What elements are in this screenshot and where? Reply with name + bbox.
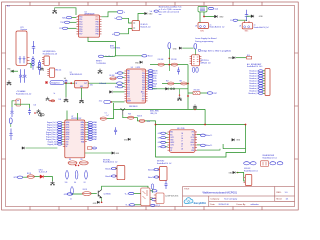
svg-text:B-D: B-D (7, 6, 11, 8)
ground G10 (50, 181, 54, 185)
U7 bottom gnd wire (85, 152, 112, 154)
wire antenna to R19 (123, 115, 128, 118)
svg-text:(DIP6)2x3_2x3: (DIP6)2x3_2x3 (200, 62, 210, 64)
svg-text:GND: GND (150, 198, 153, 200)
U1 body (75, 80, 89, 88)
svg-text:PC3: PC3 (127, 91, 130, 93)
svg-text:IN1: IN1 (170, 134, 172, 136)
svg-text:PB1: PB1 (127, 73, 130, 75)
svg-text:PB0: PB0 (127, 71, 130, 73)
capacitor C2 polarized (19, 69, 22, 82)
wire to R16 (236, 57, 247, 59)
svg-text:EN2: EN2 (192, 150, 195, 152)
svg-text:1.5: 1.5 (230, 20, 232, 22)
diode D5 (110, 91, 113, 94)
vertical net ellipse P3 (85, 170, 88, 179)
ground G2 (7, 80, 12, 85)
svg-text:PB1: PB1 (96, 24, 99, 26)
svg-text:Bridge SDO to GND in progMode: Bridge SDO to GND in progMode (201, 50, 231, 53)
H2 pins (47, 70, 49, 76)
capacitor C3 polarized (23, 69, 26, 82)
broadcast header body (265, 69, 270, 96)
svg-text:PC0: PC0 (127, 85, 130, 87)
wire PO to U2 (68, 27, 77, 29)
svg-text:REV:: REV: (277, 192, 282, 194)
svg-text:1.0: 1.0 (285, 192, 289, 194)
vertical net flag V2 (194, 44, 197, 50)
svg-text:PD7: PD7 (79, 34, 82, 36)
svg-text:ANT2_FEED: ANT2_FEED (150, 110, 160, 113)
svg-text:RELAYMOVER: RELAYMOVER (263, 154, 275, 157)
svg-text:Motor1.B: Motor1.B (105, 175, 111, 178)
capacitor C4 (65, 80, 68, 84)
svg-text:GND: GND (191, 140, 194, 142)
svg-text:..._1x?: ..._1x? (105, 115, 109, 117)
wire U2 bottom to ANT1 (88, 37, 116, 56)
svg-text:R4 1K: R4 1K (83, 189, 87, 191)
svg-text:GRO-NC: GRO-NC (244, 168, 251, 170)
antenna ANT2 (121, 108, 125, 115)
U7 body (65, 120, 85, 158)
svg-text:BROSE-IN: BROSE-IN (129, 106, 138, 108)
svg-text:Keypad_Col_0: Keypad_Col_0 (47, 122, 58, 124)
svg-text:Date:: Date: (210, 203, 215, 206)
ground G7 below loop (179, 89, 181, 95)
svg-text:PD5: PD5 (79, 29, 82, 31)
svg-text:During programming: During programming (195, 41, 213, 43)
svg-text:HFC(W)RF24L01+: HFC(W)RF24L01+ (43, 51, 56, 53)
svg-text:off: off (239, 26, 241, 28)
wire C4 down to gnd (65, 83, 67, 97)
svg-text:NC: NC (66, 146, 68, 148)
U3 right pins (146, 71, 148, 101)
svg-text:RESET: RESET (96, 61, 102, 63)
ground arrow left (11, 70, 14, 73)
svg-text:HeaderMale2.54_1x2: HeaderMale2.54_1x2 (244, 171, 258, 173)
svg-text:PC1: PC1 (127, 87, 130, 89)
svg-text:PB5: PB5 (127, 82, 130, 84)
svg-text:on: on (210, 24, 212, 26)
svg-text:R20 1K: R20 1K (137, 116, 142, 118)
svg-text:Header-Male2.54_1x2: Header-Male2.54_1x2 (210, 26, 225, 29)
svg-text:IN: IN (76, 83, 78, 85)
vertical net ellipse P1 (66, 170, 69, 179)
wire TSO to U2 (70, 21, 77, 23)
svg-text:GND: GND (236, 140, 241, 142)
svg-text:U9 HC-05: U9 HC-05 (140, 24, 147, 26)
svg-text:Header-Male2.54_1x2: Header-Male2.54_1x2 (254, 26, 269, 29)
svg-text:PC4: PC4 (127, 94, 130, 96)
wire C13 to H5 (14, 104, 29, 108)
svg-text:PD1: PD1 (79, 19, 82, 21)
wire BT1 to caps (30, 64, 32, 69)
inductor L2 (38, 60, 40, 75)
svg-text:In: In (115, 18, 117, 20)
svg-text:PC2: PC2 (127, 89, 130, 91)
svg-text:GND: GND (228, 58, 233, 60)
svg-text:PD7: PD7 (142, 89, 145, 91)
svg-text:3.3v: 3.3v (90, 84, 93, 86)
svg-text:OUT1: OUT1 (170, 137, 174, 139)
diode D9 gnd (145, 12, 147, 14)
svg-text:SWC: SWC (245, 31, 250, 33)
switch SW1 body (198, 23, 209, 29)
svg-text:BridgeTest: BridgeTest (51, 82, 60, 85)
svg-text:GND: GND (149, 13, 154, 15)
svg-text:Motor2.B: Motor2.B (148, 176, 154, 179)
svg-text:on: on (254, 25, 256, 27)
vertical net flag V4 (151, 184, 154, 189)
battery cells (19, 56, 26, 63)
wire U2 to net 5v (102, 12, 118, 17)
svg-text:h: h (124, 12, 125, 14)
svg-text:EN1: EN1 (170, 132, 173, 134)
svg-text:NC_R: NC_R (156, 205, 161, 207)
capacitor C9 (11, 107, 14, 117)
svg-text:Company:: Company: (210, 199, 220, 201)
relay right net flags (270, 162, 276, 165)
wire BadClock to OnReset (104, 55, 142, 58)
U4 right wires (197, 134, 200, 136)
svg-text:3Y: 3Y (181, 146, 183, 148)
diode D3 to GND (251, 15, 254, 18)
svg-text:R19: R19 (128, 113, 131, 115)
svg-text:RST: RST (214, 93, 217, 95)
svg-text:XT1: XT1 (142, 94, 145, 96)
svg-text:TL-CRKF49G: TL-CRKF49G (96, 63, 107, 65)
wire from G1 to U2 top (55, 8, 76, 15)
U4 right pins (195, 132, 197, 150)
svg-text:GND: GND (116, 153, 120, 155)
svg-text:BFly 1x4: BFly 1x4 (55, 70, 61, 72)
capacitor C10 polarized (10, 129, 13, 141)
svg-text:load: load (215, 8, 218, 10)
svg-text:OUT2: OUT2 (170, 145, 174, 147)
U3 right net flags (147, 70, 150, 72)
svg-text:GP5: GP5 (13, 177, 17, 179)
wire bus to R15 (188, 92, 193, 94)
svg-text:PD3: PD3 (142, 80, 145, 82)
net flag OnReset (142, 55, 147, 57)
svg-text:GP6: GP6 (64, 194, 68, 196)
ISP header body (192, 55, 200, 66)
wire U9 top to diode (138, 14, 144, 21)
wire U1 out to InBound (88, 82, 117, 84)
wire gnd arrow right (182, 47, 193, 49)
ground G4 (79, 98, 84, 103)
U2 left pins (77, 17, 79, 34)
header H2 body (49, 68, 54, 77)
header H4 body (245, 175, 252, 186)
svg-text:PO: PO (59, 28, 62, 30)
net flag load (208, 7, 213, 9)
svg-text:PD3: PD3 (79, 24, 82, 26)
U4 left pins (168, 132, 170, 150)
svg-text:Keypad_Row_3: Keypad_Row_3 (46, 139, 57, 141)
svg-text:PD0: PD0 (79, 17, 82, 19)
left branch wire (107, 109, 114, 118)
svg-text:Keypad_Row_0: Keypad_Row_0 (46, 132, 57, 134)
svg-text:Your Company: Your Company (224, 199, 237, 201)
svg-text:GND_C14: GND_C14 (150, 113, 157, 115)
svg-text:Keypad_GND: Keypad_GND (47, 144, 58, 146)
svg-text:IN4: IN4 (192, 134, 194, 136)
svg-text:+TV-SADAS: +TV-SADAS (16, 90, 26, 93)
capacitor C12 (165, 181, 168, 190)
svg-text:3.3v: 3.3v (99, 101, 102, 103)
svg-text:GND: GND (124, 139, 128, 141)
header H3 body (156, 193, 164, 204)
wire VL_D to opto (135, 204, 141, 206)
svg-text:GND: GND (80, 86, 83, 88)
svg-text:OUT: OUT (84, 83, 87, 85)
net flag NC_R (151, 204, 155, 206)
svg-text:GND: GND (127, 98, 130, 100)
svg-text:MISO: MISO (153, 73, 158, 75)
svg-text:5V0: 5V0 (65, 182, 68, 184)
ground G8 with junction (34, 112, 36, 114)
MOTOR1 pins (115, 169, 117, 177)
vertical net flag V3 (9, 118, 12, 124)
U3 left pins (125, 71, 127, 101)
svg-text:A0: A0 (115, 72, 117, 75)
svg-text:Keypad_Row_2: Keypad_Row_2 (46, 137, 57, 139)
ground G11 (46, 97, 50, 101)
ground G9 above U4 (193, 104, 197, 108)
svg-text:PD4: PD4 (79, 26, 82, 28)
svg-text:GND: GND (219, 16, 224, 18)
svg-text:C?_: C?_ (105, 113, 108, 115)
svg-text:GPB4: GPB4 (66, 132, 70, 134)
wire R7 to U3 (111, 101, 124, 103)
svg-text:Walkieremotoboard-MCP001: Walkieremotoboard-MCP001 (203, 190, 238, 194)
svg-text:off: off (195, 25, 197, 27)
svg-text:RXD: RXD (153, 81, 157, 83)
svg-text:GND: GND (259, 16, 264, 18)
svg-text:PB3: PB3 (96, 29, 99, 31)
U2 right pins (100, 17, 102, 34)
svg-text:XT2: XT2 (142, 96, 145, 98)
H1 pins (42, 58, 44, 64)
vertical net flag V1 (168, 43, 171, 49)
vertical net ellipse P4 (71, 187, 74, 195)
wire R20 right (145, 121, 156, 125)
capacitor C1 (32, 41, 35, 54)
svg-text:also with usb connected: also with usb connected (159, 11, 179, 14)
header H1 body (44, 56, 49, 65)
svg-text:2x4 SIP 2CR+SOIC: 2x4 SIP 2CR+SOIC (165, 196, 179, 198)
wire GP6 to R4 (72, 193, 82, 195)
svg-text:Broadcast_1: Broadcast_1 (249, 70, 258, 73)
svg-text:3v: 3v (54, 93, 56, 95)
svg-text:VDD: VDD (66, 141, 69, 143)
svg-text:VSS: VSS (191, 132, 194, 134)
svg-text:PB2: PB2 (96, 26, 99, 28)
svg-text:TSO: TSO (60, 22, 64, 24)
svg-text:Leave Supply the Board: Leave Supply the Board (195, 37, 216, 40)
svg-text:B1: B1 (84, 182, 86, 184)
svg-text:R11 10K: R11 10K (171, 59, 177, 61)
frame tick marks left and right (2, 53, 299, 159)
wire gnd to caps (11, 70, 18, 72)
svg-text:PD0: PD0 (142, 73, 145, 75)
svg-text:R8: R8 (69, 159, 71, 161)
wire KBC to U2 (72, 17, 77, 19)
svg-text:InBound: InBound (99, 83, 106, 85)
svg-text:PB5: PB5 (96, 34, 99, 36)
transistor Q1 (98, 190, 101, 198)
svg-text:SCK: SCK (153, 76, 157, 78)
svg-text:OUT3: OUT3 (190, 145, 194, 147)
svg-text:PD2: PD2 (142, 78, 145, 80)
svg-text:MOSI: MOSI (153, 71, 158, 73)
svg-text:GND: GND (173, 48, 178, 50)
svg-text:Keypad_Row_1: Keypad_Row_1 (46, 134, 57, 136)
wire In2 to U9 (120, 29, 133, 34)
svg-text:GP2: GP2 (158, 137, 161, 139)
SW2 pins top (0, 0, 1, 1)
wire BridgeTest to U1 (64, 82, 75, 84)
wire diode to U7 left (22, 147, 25, 150)
Q1 collector wire (102, 186, 148, 191)
wire U1 gnd down (81, 88, 83, 99)
svg-text:1/1: 1/1 (286, 199, 290, 201)
svg-text:PC5: PC5 (127, 96, 130, 98)
U7 right pins (85, 123, 87, 142)
svg-text:GND: GND (135, 63, 140, 65)
IC U2 body (79, 15, 100, 37)
svg-text:PD5: PD5 (142, 85, 145, 87)
frame tick marks top and bottom (30, 2, 262, 210)
wire C8 to D3 (247, 15, 251, 17)
capacitor C5 (177, 67, 180, 74)
svg-text:OUT4: OUT4 (190, 137, 194, 139)
optocoupler K1 body (141, 188, 150, 206)
H3 pins (154, 195, 156, 201)
vertical bus wire (187, 65, 189, 110)
svg-text:U1: U1 (70, 72, 72, 74)
net flag BadClock (98, 55, 103, 57)
svg-text:IN2: IN2 (170, 147, 172, 149)
svg-text:PB4: PB4 (96, 31, 99, 33)
crystal Y1 (38, 113, 44, 117)
svg-text:2024-02-10: 2024-02-10 (219, 204, 230, 206)
U7 left pins (63, 123, 65, 147)
svg-text:C1: C1 (70, 199, 72, 201)
svg-text:Keypad_Col_1: Keypad_Col_1 (47, 125, 58, 127)
title block outline (183, 187, 295, 207)
svg-text:PB4: PB4 (127, 80, 130, 82)
svg-text:GND3: GND3 (190, 142, 194, 144)
EasyEDA logo (184, 198, 206, 205)
svg-text:GPB3: GPB3 (66, 129, 70, 131)
svg-text:1Y: 1Y (181, 136, 183, 138)
svg-text:RST: RST (142, 98, 145, 100)
wire D5 to U3 (113, 91, 125, 93)
MOTOR1 header body (117, 166, 125, 180)
wire GP5 to R5 (23, 176, 27, 179)
H4 pins (244, 178, 246, 183)
svg-text:EasyEDA: EasyEDA (194, 201, 206, 205)
wire R5 to LED1 (34, 176, 39, 178)
svg-text:SWC: SWC (200, 30, 205, 32)
MOTOR2 pins (158, 170, 160, 178)
svg-text:GPA0: GPA0 (93, 121, 97, 124)
svg-text:SOB-LM3940-3.3: SOB-LM3940-3.3 (70, 74, 83, 76)
svg-text:GND2: GND2 (170, 142, 174, 144)
wires J3 to SW1 (199, 12, 201, 23)
svg-text:adfonoke: adfonoke (251, 204, 260, 206)
ground G6 (98, 69, 103, 74)
U4 body (170, 130, 196, 153)
svg-text:GPB2: GPB2 (66, 127, 70, 129)
capacitor C13 (28, 108, 31, 115)
svg-text:MOTOR1: MOTOR1 (103, 159, 110, 161)
svg-text:GND: GND (142, 101, 145, 103)
net label BridgeTest (50, 81, 64, 85)
svg-text:Drawn By:: Drawn By: (237, 204, 247, 206)
svg-text:PD4: PD4 (142, 82, 145, 84)
U7 top wires (66, 111, 68, 121)
ISP header pins (190, 57, 192, 64)
svg-text:GND: GND (7, 69, 11, 71)
resistor R15 rect (193, 91, 200, 94)
wire 1.5 to C8 (238, 19, 247, 22)
net flag RST2 (207, 92, 212, 95)
svg-text:Motor2.1: Motor2.1 (206, 144, 212, 147)
svg-text:PD1: PD1 (142, 75, 145, 77)
svg-text:VCC: VCC (142, 71, 145, 73)
long bus wire (113, 103, 115, 109)
svg-text:LED1: LED1 (39, 169, 43, 171)
relay left net flags (244, 162, 250, 165)
wire LED1 to gnd (44, 177, 53, 181)
diode D2 to GND (215, 15, 218, 18)
svg-text:Reset: Reset (148, 55, 153, 58)
vertical wire through junction (168, 58, 170, 71)
svg-text:Motor1.1: Motor1.1 (206, 134, 212, 137)
test pad (46, 82, 48, 84)
wire R15 to RST (200, 92, 207, 94)
svg-text:GP4: GP4 (158, 147, 161, 149)
svg-text:BT1: BT1 (21, 27, 24, 29)
USB connector J3 (198, 6, 207, 12)
module U9 body (132, 21, 139, 31)
capacitor C8 (245, 10, 248, 21)
wire InBound to U3 (122, 82, 124, 84)
svg-text:Q1 S8050: Q1 S8050 (104, 194, 111, 196)
U3 body (127, 69, 146, 103)
ISP lower net ellipses (192, 67, 198, 72)
svg-text:GP1: GP1 (158, 133, 161, 135)
svg-text:GPB5: GPB5 (66, 134, 70, 136)
svg-text:PB3: PB3 (127, 78, 130, 80)
MOTOR2 header body (160, 167, 168, 181)
svg-text:GPB6: GPB6 (66, 137, 70, 139)
svg-text:KBC: KBC (62, 17, 66, 19)
svg-text:Keypad_Col_2: Keypad_Col_2 (47, 127, 58, 129)
H5 pins (14, 101, 16, 104)
svg-text:GP3: GP3 (158, 142, 161, 144)
net flag 5v pill (117, 11, 123, 14)
svg-text:In: In (112, 34, 114, 36)
resistor R21 tiny (51, 100, 55, 102)
svg-text:SCL: SCL (153, 86, 156, 88)
svg-text:R10 10K: R10 10K (158, 59, 164, 61)
svg-text:A1: A1 (74, 181, 76, 184)
U4 loop wires (156, 124, 246, 126)
svg-text:GPB1: GPB1 (66, 125, 70, 127)
